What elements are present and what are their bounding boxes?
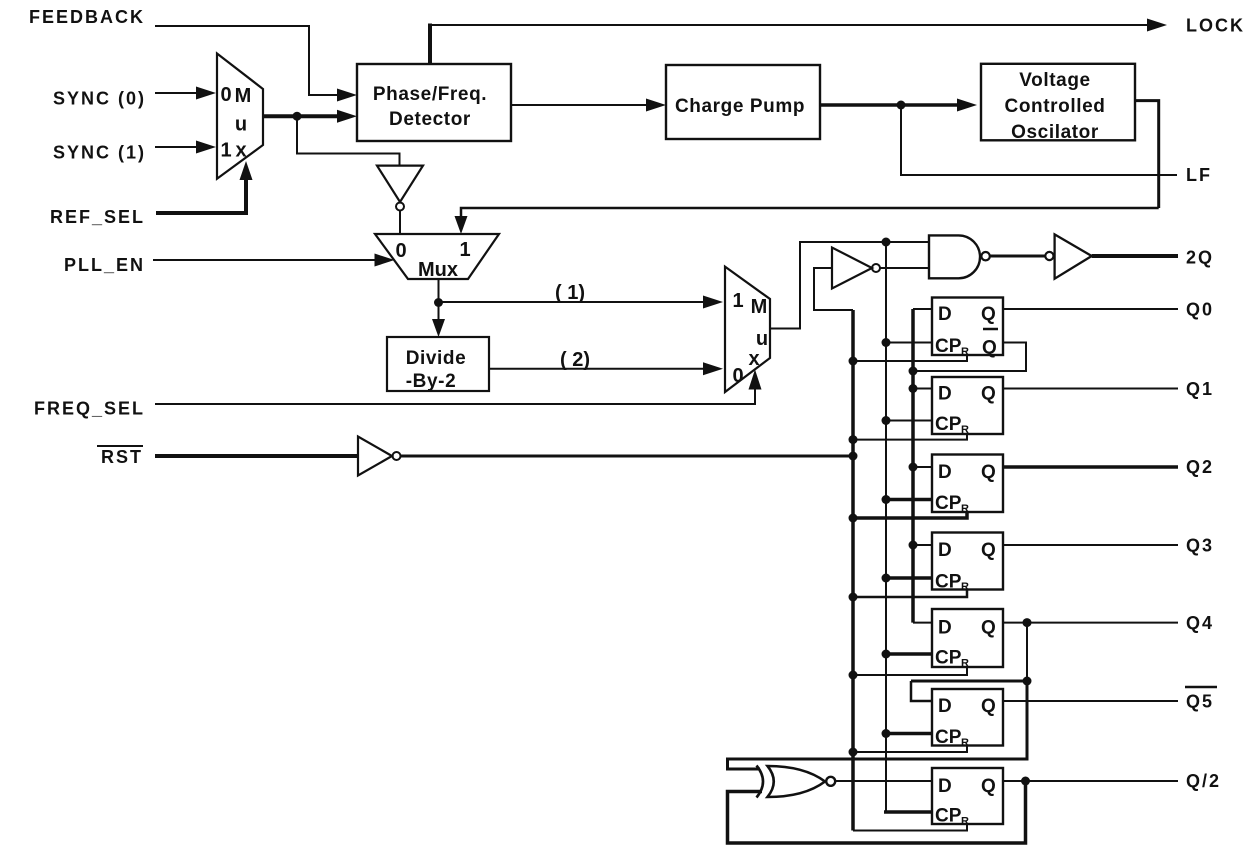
svg-text:CP: CP — [935, 572, 962, 593]
svg-text:Q: Q — [981, 618, 996, 639]
svg-text:RST: RST — [101, 447, 143, 467]
op-amp U7 inverter (clock to NAND) — [832, 248, 880, 289]
flip-flop U14 (Q4) — [932, 609, 1003, 670]
svg-text:CP: CP — [935, 414, 962, 435]
wire XOR output to FF U17 D — [835, 780, 932, 782]
svg-text:SYNC (0): SYNC (0) — [53, 89, 146, 109]
wire mux U3 output — [438, 279, 440, 303]
svg-text:CP: CP — [935, 806, 962, 827]
wire NAND to buffer U9 — [990, 255, 1046, 258]
wire arrow into Divide-By-2 — [438, 303, 440, 321]
svg-text:2Q: 2Q — [1186, 248, 1214, 268]
svg-text:CP: CP — [935, 648, 962, 669]
wire FF U15 R input — [853, 746, 967, 753]
wire Q/2 feedback to XOR bottom input — [728, 781, 1026, 843]
svg-text:u: u — [756, 328, 768, 350]
wire FF U11 CP input — [886, 420, 932, 422]
wire Q4 tap down — [1026, 623, 1028, 681]
svg-text:D: D — [938, 540, 952, 561]
Voltage Controlled Oscilator block — [981, 64, 1135, 143]
flip-flop U15 (Q5) — [932, 689, 1003, 749]
mux U1 (reference select) — [217, 54, 263, 179]
wire FF U17 CP input — [884, 810, 932, 814]
wire FF U13 R input — [853, 590, 967, 598]
svg-text:D: D — [938, 462, 952, 483]
wire FF U10 CP input — [886, 342, 932, 344]
svg-text:1: 1 — [459, 239, 470, 261]
wire Phase/Freq Detector top stub — [428, 24, 432, 65]
op-amp U9 buffer with input bubble — [1045, 234, 1091, 278]
svg-text:REF_SEL: REF_SEL — [50, 207, 145, 227]
wire FF U14 R input — [853, 667, 967, 675]
junction dot Q4 tap — [1023, 618, 1032, 627]
svg-text:Q: Q — [981, 540, 996, 561]
wire LF tap — [901, 105, 1177, 175]
wire Q3 output — [1003, 544, 1178, 546]
junction dot on charge pump output — [897, 101, 906, 110]
svg-text:Q: Q — [982, 338, 997, 359]
wire PLL_EN to mux U3 — [153, 259, 377, 261]
svg-text:-By-2: -By-2 — [406, 371, 457, 392]
wire FF U13 D input — [913, 544, 932, 546]
svg-text:u: u — [235, 114, 247, 136]
svg-text:CP: CP — [935, 336, 962, 357]
wire Q5bar output — [1003, 700, 1178, 702]
node RST label — [97, 446, 143, 467]
svg-text:Q5: Q5 — [1186, 692, 1214, 712]
svg-text:SYNC (1): SYNC (1) — [53, 143, 146, 163]
svg-text:Oscilator: Oscilator — [1011, 122, 1099, 143]
svg-text:M: M — [751, 296, 768, 318]
svg-text:x: x — [748, 348, 759, 370]
wire FF U17 R input — [853, 824, 967, 831]
wire inverter U2 output to mux U3 input 0 — [399, 211, 401, 235]
svg-text:Q0: Q0 — [1186, 300, 1214, 320]
wire FF U10 Qbar feedback to D bus — [913, 343, 1026, 372]
xor gate U16 (XNOR) — [757, 766, 836, 798]
svg-text:Q/2: Q/2 — [1186, 771, 1221, 791]
wire Q4 output — [1003, 622, 1178, 624]
Charge Pump block — [666, 65, 820, 139]
wire inverter U6 output to reset bus — [401, 455, 854, 458]
svg-text:FREQ_SEL: FREQ_SEL — [34, 399, 145, 419]
svg-text:D: D — [938, 696, 952, 717]
wire D bus vertical — [911, 309, 915, 623]
svg-text:Q1: Q1 — [1186, 379, 1214, 399]
wire SYNC (1) to mux U1 — [155, 146, 198, 148]
wire FREQ_SEL to mux U5 select — [155, 388, 755, 404]
svg-text:D: D — [938, 618, 952, 639]
Divide-By-2 block — [387, 337, 489, 392]
wire FF U11 D input — [913, 388, 932, 390]
wire Q1 output — [1003, 388, 1178, 390]
wire ( 2) to mux U5 input 0 — [489, 368, 705, 370]
svg-text:LF: LF — [1186, 165, 1212, 185]
wire FF U10 D input — [913, 308, 932, 310]
wire FF U14 CP input — [886, 652, 932, 656]
junction dot clock bus top — [882, 238, 891, 247]
svg-text:PLL_EN: PLL_EN — [64, 255, 145, 275]
wire Q0 output — [1003, 308, 1178, 310]
svg-text:Q: Q — [981, 304, 996, 325]
wire inverter U7 input bracket from reset bus — [814, 268, 853, 310]
svg-text:D: D — [938, 304, 952, 325]
wire Q/2 output — [1003, 780, 1178, 782]
wire Q4 chain down to XOR top input — [728, 681, 1028, 769]
op-amp U2 inverter (pll bypass, pointing down) — [377, 166, 423, 211]
svg-text:Q: Q — [981, 776, 996, 797]
svg-text:0: 0 — [220, 84, 231, 106]
svg-text:Divide: Divide — [406, 348, 467, 369]
svg-text:M: M — [235, 85, 252, 107]
wire FF U12 R input — [853, 512, 967, 518]
wire Phase/Freq Detector to Charge Pump — [511, 104, 648, 106]
wire clock bus vertical — [885, 242, 887, 812]
svg-text:0: 0 — [395, 240, 406, 262]
flip-flop U11 (Q1) — [932, 377, 1003, 436]
wire RST to inverter U6 — [155, 454, 358, 458]
svg-text:0: 0 — [732, 365, 743, 387]
svg-text:Q: Q — [981, 696, 996, 717]
wire REF_SEL to mux U1 select — [156, 180, 246, 213]
svg-text:D: D — [938, 384, 952, 405]
svg-text:Q4: Q4 — [1186, 613, 1214, 633]
wire FF U10 R input — [853, 355, 967, 361]
svg-text:FEEDBACK: FEEDBACK — [29, 7, 145, 27]
wire reset bus vertical — [851, 310, 855, 831]
svg-text:Phase/Freq.: Phase/Freq. — [373, 84, 487, 105]
wire 2Q output — [1092, 254, 1178, 258]
wire FF U15 CP input — [886, 732, 932, 736]
wire FF U12 CP input — [886, 498, 932, 502]
wire FF U11 R input — [853, 434, 967, 440]
flip-flop U12 (Q2) — [932, 455, 1003, 516]
wire FF U13 CP input — [886, 576, 932, 580]
node Q5 label with overline — [1185, 687, 1217, 712]
svg-text:Q: Q — [981, 462, 996, 483]
op-amp U6 inverter (reset) — [358, 437, 401, 476]
NAND gate U8 — [929, 235, 990, 278]
svg-text:Controlled: Controlled — [1005, 96, 1106, 117]
wire mux U1 output to Phase/Freq Detector — [263, 114, 339, 118]
svg-text:Mux: Mux — [418, 259, 458, 281]
wire VCO output down to feedback line — [1135, 101, 1159, 208]
wire FF U12 D input — [913, 466, 932, 468]
wire ( 1) to mux U5 input 1 — [439, 301, 706, 303]
svg-text:Voltage: Voltage — [1019, 70, 1090, 91]
svg-text:( 1): ( 1) — [555, 282, 585, 304]
svg-text:1: 1 — [732, 290, 743, 312]
flip-flop U13 (Q3) — [932, 533, 1003, 594]
wire SYNC (0) to mux U1 — [155, 92, 198, 94]
junction dot reset bus at RST — [849, 452, 858, 461]
svg-text:CP: CP — [935, 727, 962, 748]
svg-text:Detector: Detector — [389, 109, 471, 130]
mux U5 (frequency select) — [725, 267, 770, 392]
mux U3 (pll enable mux) — [375, 234, 499, 281]
svg-text:CP: CP — [935, 493, 962, 514]
svg-text:Q3: Q3 — [1186, 536, 1214, 556]
flip-flop U10 (Q0) — [932, 298, 1003, 359]
wire mux output tap down to inverter U2 — [297, 116, 400, 165]
svg-text:D: D — [938, 776, 952, 797]
wire inverter U7 output to NAND — [880, 267, 929, 269]
wire mux U5 output up to NAND gate — [770, 242, 928, 329]
wire FEEDBACK to Phase/Freq Detector — [155, 26, 339, 95]
Phase/Freq. Detector block — [357, 64, 511, 141]
svg-text:x: x — [235, 140, 246, 162]
junction dot mux U3 output — [434, 298, 443, 307]
svg-text:( 2): ( 2) — [560, 349, 590, 371]
wire VCO feedback line to mux U3 input 1 — [461, 208, 1159, 219]
svg-text:1: 1 — [220, 140, 231, 162]
flip-flop U17 (Q/2) — [932, 768, 1003, 828]
junction dot Q/2 feedback — [1021, 777, 1030, 786]
svg-text:Charge Pump: Charge Pump — [675, 96, 805, 117]
junction dot on mux U1 output — [293, 112, 302, 121]
wire FF U14 D input from D bus — [913, 622, 932, 624]
wire Q2 output — [1003, 465, 1178, 469]
svg-text:LOCK: LOCK — [1186, 16, 1245, 36]
wire Charge Pump to VCO — [820, 103, 959, 107]
svg-text:Q2: Q2 — [1186, 457, 1214, 477]
wire LOCK line — [430, 24, 1149, 26]
svg-text:Q: Q — [981, 384, 996, 405]
wire FF U15 D input from Q4 — [911, 680, 1027, 683]
